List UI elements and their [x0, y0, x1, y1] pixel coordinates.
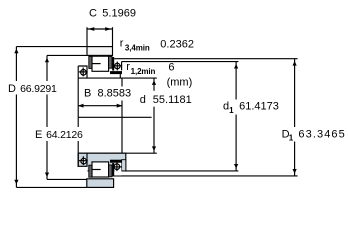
- dimension d1 line with arrows: [235, 62, 237, 171]
- roller cage box bottom: [92, 162, 109, 177]
- inner ring thick bar top: [110, 71, 122, 74]
- mask below left pocket bottom: [78, 167, 88, 178]
- svg-text:D: D: [8, 83, 16, 95]
- rib right face top: [120, 62, 121, 79]
- right pocket mask bottom: [114, 163, 121, 176]
- left pocket top: [78, 66, 87, 78]
- cage tick top: [92, 63, 100, 65]
- rib bottom: [122, 160, 126, 171]
- cage tick bottom: [92, 169, 100, 171]
- svg-text:1,2min: 1,2min: [131, 67, 156, 76]
- left roller bar bottom: [89, 165, 92, 177]
- d1 extension line top: [122, 61, 239, 63]
- svg-text:r: r: [126, 61, 130, 73]
- svg-text:0.2362: 0.2362: [160, 38, 194, 50]
- svg-text:61.4173: 61.4173: [239, 101, 279, 113]
- roller mark top-left: [79, 68, 88, 77]
- svg-text:(mm): (mm): [167, 77, 193, 89]
- black ring bar top: [112, 57, 114, 71]
- dimension C line with arrows: [87, 27, 113, 46]
- svg-text:B: B: [84, 87, 91, 99]
- outer ring (cup) top: [87, 47, 113, 56]
- bore line bottom: [78, 152, 157, 154]
- dimension d line with arrows: [153, 78, 155, 153]
- roller mark bottom-right: [113, 162, 122, 171]
- svg-text:3,4min: 3,4min: [125, 43, 150, 52]
- svg-text:r: r: [120, 37, 124, 49]
- svg-text:5.1969: 5.1969: [102, 7, 136, 19]
- svg-text:8.8583: 8.8583: [98, 87, 132, 99]
- svg-text:C: C: [89, 7, 97, 19]
- D1 extension line bottom: [113, 175, 298, 177]
- black ring bar bottom: [112, 163, 114, 177]
- svg-text:1: 1: [229, 106, 234, 115]
- dimension D line with arrows: [16, 47, 113, 188]
- svg-text:d: d: [140, 94, 146, 106]
- right roller bar bottom: [109, 165, 112, 177]
- roller mark bottom-left: [79, 156, 88, 165]
- svg-text:1: 1: [289, 134, 294, 143]
- svg-text:55.1181: 55.1181: [153, 94, 192, 106]
- bore line top: [78, 77, 157, 79]
- inner ring body bottom: [78, 153, 126, 171]
- roller mark top-right: [113, 62, 122, 71]
- left roller bar top: [89, 56, 92, 68]
- d1 extension line bottom: [113, 170, 238, 172]
- D1 extension line top: [114, 58, 297, 60]
- svg-text:66.9291: 66.9291: [20, 83, 57, 95]
- svg-text:63.3465: 63.3465: [298, 129, 345, 141]
- centerline: [78, 116, 151, 118]
- inner ring left face line: [77, 66, 79, 166]
- svg-text:6: 6: [168, 62, 174, 74]
- left pocket bottom: [78, 153, 87, 166]
- dimension E line with arrows: [47, 55, 87, 179]
- dimension D1 line with arrows: [294, 59, 296, 176]
- right roller bar top: [109, 56, 112, 68]
- outer ring (cup) bottom: [87, 179, 114, 188]
- dimension B line with arrows: [78, 105, 122, 107]
- inner ring right face line: [121, 78, 123, 153]
- svg-text:E: E: [35, 129, 42, 141]
- roller cage box top: [92, 56, 109, 71]
- inner ring thick bar bottom: [110, 160, 122, 163]
- svg-text:64.2126: 64.2126: [46, 129, 83, 141]
